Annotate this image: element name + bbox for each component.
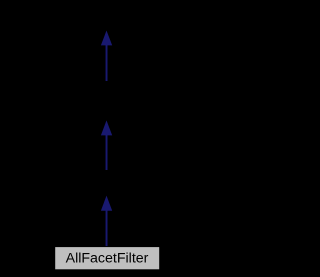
inheritance arrow 2 (middle) (101, 120, 112, 170)
inheritance arrow 1 (top) (101, 31, 112, 82)
class inheritance diagram (0, 0, 213, 277)
inheritance arrow 3 (bottom) (101, 196, 112, 248)
svg-text:AllFacetFilter: AllFacetFilter (66, 251, 149, 267)
node AllFacetFilter box (55, 247, 160, 270)
